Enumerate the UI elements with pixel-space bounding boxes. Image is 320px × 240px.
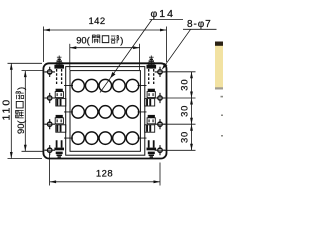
dimension 90 opening horizontal <box>70 35 140 71</box>
dimension 90 opening vertical <box>15 71 43 152</box>
svg-text:128: 128 <box>96 168 113 179</box>
cable bushing holes row 2 (phi14 x5) <box>72 106 85 119</box>
opening outer frame <box>66 67 145 156</box>
svg-text:8-φ7: 8-φ7 <box>187 19 212 30</box>
svg-text:142: 142 <box>88 16 105 27</box>
dimension 128 bottom <box>50 155 160 186</box>
plate outline <box>43 63 166 158</box>
bar link lines <box>64 86 147 139</box>
svg-text:90(: 90( <box>76 35 90 46</box>
yellow photo fragment right edge <box>215 42 223 137</box>
8 mounting holes with center crosses <box>44 67 165 156</box>
clamp row3 left <box>55 115 66 132</box>
dimension 110 vertical <box>1 63 42 158</box>
clamp row1 left <box>54 56 64 85</box>
svg-text:30: 30 <box>179 79 190 91</box>
clamp row4 left <box>54 140 64 157</box>
label phi14 with leader <box>100 8 183 93</box>
dimension 142 <box>43 16 166 62</box>
svg-text:110: 110 <box>1 98 13 121</box>
opening inner edge <box>70 71 140 152</box>
label 8-phi7 with leader <box>162 19 216 69</box>
clamp row2 left <box>55 89 66 106</box>
svg-text:90(: 90( <box>15 120 26 134</box>
svg-text:): ) <box>120 35 123 46</box>
clamp row3 right <box>145 115 156 132</box>
cable bushing holes row 1 (phi14 x5) <box>72 79 85 92</box>
clamp row4 right <box>147 140 157 157</box>
clamp row1 right <box>147 56 157 85</box>
bushing hole circles: 3 rows x 5 <box>72 79 139 144</box>
dimension 30 x3 right <box>165 72 196 151</box>
cable bushing holes row 3 (phi14 x5) <box>72 132 85 145</box>
svg-text:30: 30 <box>179 105 190 117</box>
clamp row2 right <box>145 89 156 106</box>
svg-text:30: 30 <box>179 131 190 143</box>
svg-text:): ) <box>15 87 26 90</box>
svg-text:φ14: φ14 <box>151 8 176 20</box>
